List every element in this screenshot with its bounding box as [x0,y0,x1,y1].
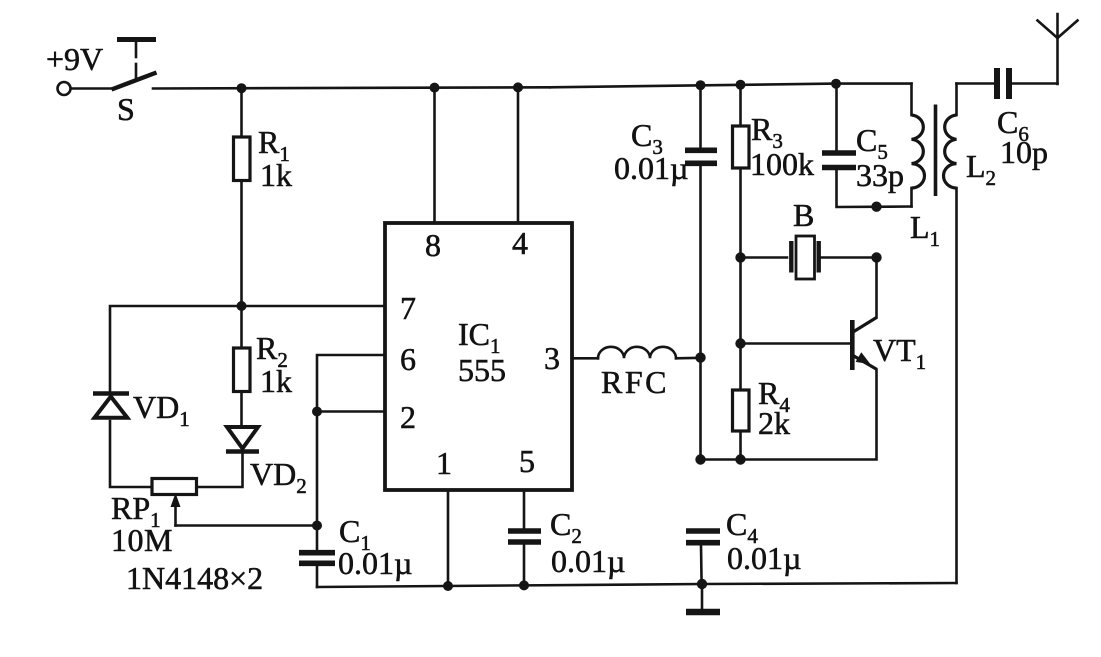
svg-text:33p: 33p [856,157,904,193]
svg-text:0.01µ: 0.01µ [614,150,688,186]
svg-text:2: 2 [400,399,416,435]
wire C4 to bottom rail [700,546,703,585]
pin 5 [519,443,535,586]
wire collector up to crystal right node [875,258,878,318]
resistor R1 [234,124,293,193]
wire R4 to bottom node [739,431,742,460]
node junction pin1 bottom rail [443,581,453,591]
capacitor C1 [299,513,412,581]
wire RP1 wiper to pin2 column [176,524,318,527]
crystal B [741,197,877,279]
capacitor C3 [614,85,717,186]
wire base to transistor [741,342,851,345]
svg-text:0.01µ: 0.01µ [338,545,412,581]
power terminal +9V [46,41,103,95]
wire C1 to bottom rail [316,566,319,587]
ground [686,584,720,612]
svg-text:+9V: +9V [46,41,103,77]
node junction L1 bottom [871,202,881,212]
wire pin6 to left column down to C1 [317,355,385,550]
node junction RFC output [695,352,705,362]
svg-text:3: 3 [544,340,560,376]
capacitor C2 [508,506,625,579]
wire L2 bottom to bottom rail [955,188,958,583]
svg-text:RFC: RFC [601,364,669,400]
svg-text:L2: L2 [966,148,996,190]
diode VD2 [226,427,307,498]
wire C6 to antenna [1012,82,1058,85]
wire emitter down and left to R4 bottom [701,370,877,460]
svg-text:1: 1 [436,445,452,481]
node junction crystal left [735,252,745,262]
capacitor C6 [997,68,1048,170]
wire bottom rail [317,583,957,587]
node junction top rail R3 [736,80,746,90]
node junction C4 top [695,454,705,464]
node junction pin7 [237,301,247,311]
svg-text:6: 6 [400,341,416,377]
wire L2 top to C6 [957,82,995,85]
transformer core [934,105,938,197]
svg-text:VT1: VT1 [873,332,926,374]
svg-text:7: 7 [400,290,416,326]
pin 4 [512,87,528,261]
svg-text:555: 555 [458,352,506,388]
node junction R4 top base [735,338,745,348]
wire top supply rail right part [550,84,912,88]
node junction top rail C3 [696,80,706,90]
resistor R4 [733,344,791,442]
wire VD1 to RP1 [110,421,152,487]
svg-text:8: 8 [425,227,441,263]
wire pin7 to left column [110,306,385,392]
wire top supply rail [153,87,550,88]
svg-text:10p: 10p [1000,134,1048,170]
transistor VT1 [852,318,926,375]
node junction pin2 [312,407,322,417]
wire C3 down through RFC node to C4 node [699,166,702,460]
inductor L1 [910,84,940,251]
node junction top rail R1 [237,83,247,93]
resistor R3 [733,85,815,182]
wire crystal node to base node [739,258,742,344]
svg-text:B: B [793,197,814,233]
svg-text:VD1: VD1 [133,389,190,431]
wire C5 bottom to L1 bottom [837,170,912,207]
svg-text:1N4148×2: 1N4148×2 [126,560,263,596]
node junction crystal right [871,252,881,262]
svg-text:1k: 1k [260,363,292,399]
svg-text:0.01µ: 0.01µ [727,540,801,576]
wire R3 to crystal node [739,168,742,258]
switch S [112,40,157,128]
svg-text:100k: 100k [750,146,814,182]
svg-text:VD2: VD2 [250,456,307,498]
inductor L2 [944,84,997,191]
svg-text:4: 4 [512,225,528,261]
wire rail to R1 [240,88,243,137]
svg-text:10M: 10M [111,522,173,558]
capacitor C4 [686,506,801,576]
svg-text:S: S [117,91,135,127]
inductor RFC [572,347,701,400]
wire R2 to VD2 [240,392,243,427]
potentiometer RP1 [111,479,197,559]
wire R1 to pin7 node [240,181,243,307]
node junction top rail pin4 [513,82,523,92]
svg-text:5: 5 [519,443,535,479]
node junction R4 bottom [735,454,745,464]
svg-text:2k: 2k [758,405,790,441]
wire R2 column from pin7 node [240,306,243,348]
wire VD2 to RP1 right end [197,453,243,487]
node junction ground [697,579,707,589]
node junction pin5 bottom rail [519,580,529,590]
resistor R2 [234,330,293,399]
node junction wiper C1 [312,521,322,531]
svg-text:0.01µ: 0.01µ [551,543,625,579]
diode VD1 [93,389,190,431]
capacitor C5 [822,84,904,193]
wire pin2 stub [317,410,385,413]
svg-text:L1: L1 [910,209,940,251]
svg-text:1k: 1k [260,157,292,193]
op-amp IC1 555 box [385,223,572,490]
antenna [1038,14,1078,84]
wire terminal to switch [71,87,113,90]
pin 8 [425,88,441,263]
pin 1 [436,445,452,586]
node junction top rail pin8 [430,83,440,93]
node junction top rail C5 L1 [831,79,841,89]
svg-text:C2: C2 [550,506,582,548]
